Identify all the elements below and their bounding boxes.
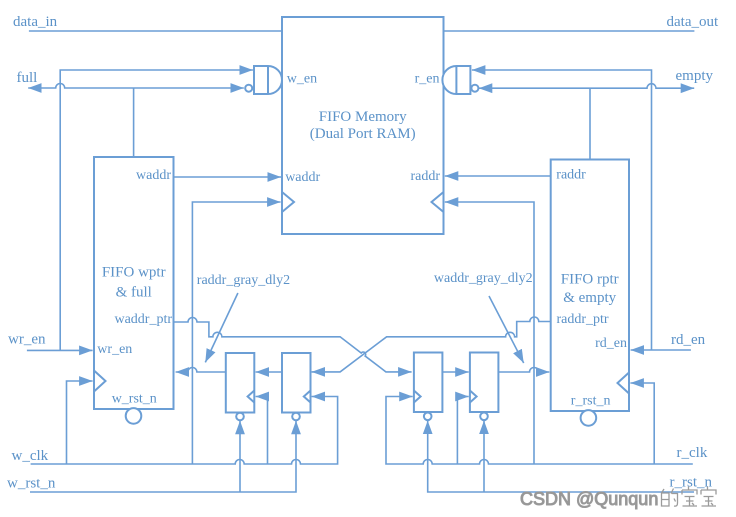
svg-text:r_en: r_en: [415, 72, 440, 87]
flip-flop FF3: [414, 353, 443, 413]
svg-text:r_rst_n: r_rst_n: [571, 394, 611, 409]
wire r_rst_n: [428, 421, 694, 492]
svg-text:full: full: [17, 70, 38, 86]
wire data_in: [29, 30, 282, 32]
clock chevron FF2: [304, 391, 311, 403]
wire w_clk: [31, 397, 338, 465]
wire full vertical from wptr box top: [133, 88, 135, 156]
wire full (output + feedback to A1 bubble): [28, 84, 244, 88]
svg-text:raddr: raddr: [556, 168, 586, 183]
wire rd_en port stub: [631, 349, 691, 351]
wire wr_en branch to AND gate A1 upper input: [60, 70, 253, 350]
svg-text:(Dual Port RAM): (Dual Port RAM): [310, 126, 416, 142]
AND gate A1 (w_en): [254, 66, 282, 94]
wire raddr: [445, 175, 551, 177]
svg-text:waddr_gray_dly2: waddr_gray_dly2: [434, 271, 533, 286]
wire r_clk branch to memory read clock: [445, 202, 534, 464]
svg-text:raddr_ptr: raddr_ptr: [557, 312, 609, 327]
wire raddr_ptr to crossover to FF2: [312, 317, 551, 372]
reset bubble FF1: [236, 413, 244, 421]
watermark CSDN: [520, 487, 716, 510]
svg-text:r_rst_n: r_rst_n: [670, 475, 713, 491]
svg-text:FIFO wptr: FIFO wptr: [102, 265, 166, 281]
wire FF4 to rptr: [498, 368, 549, 373]
wire r_rst_n branch to FF4 reset: [483, 421, 485, 492]
wire rd_en branch to AND gate A2 upper input: [472, 70, 652, 350]
clock chevron FF4: [470, 391, 477, 403]
label pointer waddr_gray_dly2: [489, 296, 524, 363]
reset bubble FF4: [480, 413, 488, 421]
svg-text:w_rst_n: w_rst_n: [112, 392, 157, 407]
wire r_clk branch to FF4 clock: [457, 397, 468, 465]
wire empty (output + feedback to A2 bubble): [479, 84, 694, 88]
svg-text:waddr: waddr: [285, 170, 320, 185]
wire FF3 to FF4: [442, 371, 469, 373]
wire waddr_ptr to crossover to FF3: [174, 318, 412, 372]
clock chevron memory read port: [432, 192, 444, 212]
flip-flop FF1: [226, 353, 255, 413]
wire w_clk branch to memory write clock: [192, 202, 280, 464]
svg-text:empty: empty: [676, 68, 714, 84]
wire raddr_gray_dly2 from FF1 to wptr: [176, 368, 226, 373]
svg-text:w_clk: w_clk: [12, 448, 49, 464]
svg-text:rd_en: rd_en: [595, 336, 627, 351]
reset bubble FF2: [292, 413, 300, 421]
wire w_rst_n: [30, 421, 296, 492]
wire w_clk branch to wptr clock: [67, 381, 93, 464]
wire r_clk: [386, 397, 693, 465]
svg-text:raddr: raddr: [410, 169, 440, 184]
FIFO wptr box U2: [94, 157, 174, 409]
svg-text:waddr_ptr: waddr_ptr: [114, 312, 172, 327]
svg-text:data_out: data_out: [667, 14, 719, 30]
svg-text:FIFO Memory: FIFO Memory: [319, 109, 407, 125]
AND gate A2 input bubble: [471, 85, 478, 92]
wire w_rst_n branch to FF1 reset: [239, 421, 241, 492]
svg-text:FIFO rptr: FIFO rptr: [561, 272, 619, 288]
FIFO rptr box U3: [551, 160, 629, 412]
clock chevron wptr: [94, 371, 106, 392]
wire wr_en port stub: [27, 349, 93, 351]
reset bubble wptr: [126, 408, 142, 424]
FIFO Memory box U1: [282, 17, 444, 234]
svg-text:rd_en: rd_en: [671, 332, 706, 348]
svg-text:w_en: w_en: [287, 72, 317, 87]
wire FF2 to FF1: [256, 371, 282, 373]
flip-flop FF2: [282, 353, 311, 413]
svg-text:r_clk: r_clk: [677, 445, 708, 461]
reset bubble rptr: [581, 410, 597, 426]
label pointer raddr_gray_dly2: [205, 293, 238, 362]
clock chevron FF1: [248, 391, 255, 403]
clock chevron FF3: [414, 391, 421, 403]
wire empty vertical from rptr box top: [589, 88, 591, 159]
svg-text:& empty: & empty: [563, 290, 616, 306]
reset bubble FF3: [424, 413, 432, 421]
svg-text:wr_en: wr_en: [8, 332, 46, 348]
wire w_clk branch to FF1 clock: [256, 397, 268, 465]
AND gate A1 input bubble: [245, 85, 252, 92]
svg-text:CSDN @Qunqun: CSDN @Qunqun: [520, 489, 658, 509]
clock chevron memory write port: [282, 192, 294, 212]
wire data_out: [444, 30, 694, 32]
AND gate A2 (r_en): [442, 66, 470, 94]
clock chevron rptr: [618, 373, 630, 394]
svg-text:raddr_gray_dly2: raddr_gray_dly2: [197, 273, 290, 288]
flip-flop FF4: [470, 353, 499, 413]
svg-text:data_in: data_in: [13, 14, 58, 30]
wire r_clk branch to rptr clock: [630, 383, 654, 464]
wire waddr: [174, 176, 281, 178]
svg-text:waddr: waddr: [136, 168, 171, 183]
svg-text:& full: & full: [116, 284, 152, 300]
svg-text:wr_en: wr_en: [97, 342, 132, 357]
svg-text:w_rst_n: w_rst_n: [7, 476, 56, 492]
